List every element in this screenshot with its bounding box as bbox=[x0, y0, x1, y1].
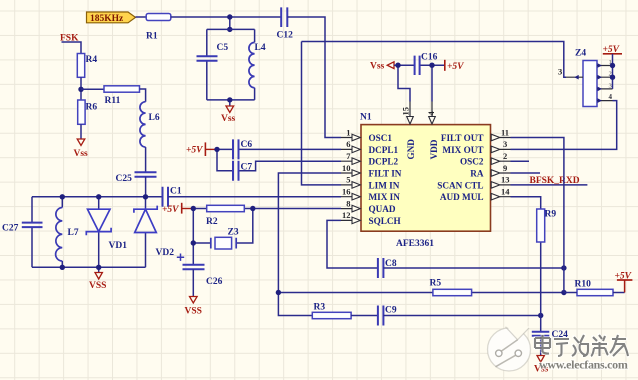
wire C6/C7 net bbox=[217, 149, 341, 170]
svg-text:R6: R6 bbox=[86, 103, 98, 113]
wire Vss to C16 and GND pin bbox=[394, 65, 444, 101]
power +5V at C1/R2 node bbox=[162, 203, 193, 215]
wire to R11 bbox=[81, 88, 104, 90]
ground Vss under C24 bbox=[534, 356, 549, 375]
pin names top GND VDD bbox=[406, 139, 439, 160]
svg-text:L4: L4 bbox=[255, 43, 266, 53]
watermark logo bbox=[488, 325, 531, 372]
svg-text:VD1: VD1 bbox=[109, 241, 128, 251]
capacitor C26 polarized bbox=[177, 254, 223, 288]
capacitor C7 bbox=[233, 161, 252, 181]
wire +5V node to R2 and QUAD bbox=[193, 209, 341, 265]
svg-text:14: 14 bbox=[501, 187, 510, 197]
svg-text:4: 4 bbox=[609, 93, 613, 101]
svg-text:R2: R2 bbox=[206, 217, 218, 227]
power +5V at C6 bbox=[186, 142, 217, 156]
svg-text:GND: GND bbox=[406, 139, 416, 160]
svg-text:FILT OUT: FILT OUT bbox=[441, 133, 484, 143]
svg-text:FILT IN: FILT IN bbox=[369, 169, 402, 179]
svg-text:1: 1 bbox=[346, 127, 350, 137]
Z4 pins right bbox=[597, 59, 613, 103]
wire R10 bbox=[564, 292, 625, 294]
wire FILT OUT to C8/R5 bbox=[511, 138, 564, 293]
svg-text:C27: C27 bbox=[2, 224, 19, 234]
resistor R10 bbox=[575, 280, 614, 296]
wire SQLCH to C8 bbox=[327, 220, 378, 268]
svg-text:C25: C25 bbox=[116, 174, 133, 184]
svg-text:www.elecfans.com: www.elecfans.com bbox=[539, 358, 628, 372]
svg-text:R11: R11 bbox=[105, 96, 121, 106]
resistor R2 bbox=[206, 205, 244, 227]
wire left loop bbox=[32, 197, 146, 273]
svg-text:SQLCH: SQLCH bbox=[369, 216, 401, 226]
svg-text:R9: R9 bbox=[545, 210, 557, 220]
wire SCAN CTL bbox=[511, 184, 588, 186]
capacitor C24 bbox=[532, 330, 568, 340]
svg-text:3: 3 bbox=[503, 139, 507, 149]
ground VSS under VD1 bbox=[89, 273, 106, 292]
svg-text:R3: R3 bbox=[314, 303, 326, 313]
wire tag to R1 bbox=[136, 16, 147, 18]
svg-text:VSS: VSS bbox=[89, 281, 106, 291]
capacitor C9 bbox=[378, 306, 397, 326]
svg-text:RA: RA bbox=[470, 169, 484, 179]
svg-text:6: 6 bbox=[346, 139, 350, 149]
wire FILT IN riser bbox=[278, 173, 341, 316]
svg-text:QUAD: QUAD bbox=[369, 204, 396, 214]
node tank top bbox=[227, 14, 232, 19]
wire L6 to C25 bbox=[145, 147, 147, 172]
svg-text:VSS: VSS bbox=[185, 307, 202, 317]
resistor R6 bbox=[78, 100, 98, 124]
svg-text:10: 10 bbox=[342, 163, 351, 173]
capacitor C6 bbox=[233, 139, 252, 159]
crystal Z3 bbox=[211, 228, 239, 250]
wire OSC2 stub bbox=[511, 160, 530, 162]
svg-text:LIM IN: LIM IN bbox=[369, 180, 400, 190]
diode VD1 zener bbox=[86, 209, 127, 251]
diode VD2 zener bbox=[134, 206, 174, 258]
pin names left bbox=[369, 133, 402, 226]
wire R1 to C12 bbox=[171, 16, 281, 18]
pin numbers left bbox=[342, 127, 351, 220]
svg-text:OSC2: OSC2 bbox=[460, 157, 484, 167]
wire C1 to pin16 MIX IN bbox=[168, 196, 341, 198]
wire AUD MUL to R9 bbox=[511, 197, 541, 356]
svg-text:185KHz: 185KHz bbox=[90, 14, 124, 24]
svg-text:DCPL1: DCPL1 bbox=[369, 145, 399, 155]
inductor L7 bbox=[56, 208, 79, 262]
svg-text:C9: C9 bbox=[385, 306, 397, 316]
svg-text:MIX OUT: MIX OUT bbox=[442, 145, 483, 155]
svg-text:AUD MUL: AUD MUL bbox=[440, 192, 484, 202]
svg-text:AFE3361: AFE3361 bbox=[396, 239, 434, 249]
capacitor C16 bbox=[415, 53, 438, 76]
svg-text:R4: R4 bbox=[86, 55, 98, 65]
svg-text:15: 15 bbox=[401, 107, 411, 116]
resistor R4 bbox=[77, 54, 97, 78]
resistor R5 bbox=[430, 279, 472, 296]
svg-text:C1: C1 bbox=[170, 187, 182, 197]
pins top 15 GND 4 VDD bbox=[410, 102, 432, 117]
svg-text:DCPL2: DCPL2 bbox=[369, 157, 399, 167]
wire R6 to ground bbox=[80, 124, 82, 139]
capacitor C1 bbox=[163, 187, 182, 207]
svg-text:VDD: VDD bbox=[429, 139, 439, 159]
ground Vss tank bbox=[221, 106, 236, 124]
wire R4 to R6 bbox=[80, 77, 82, 100]
capacitor C25 bbox=[116, 172, 157, 184]
pins right with arrows bbox=[500, 138, 511, 197]
svg-text:Vss: Vss bbox=[370, 62, 385, 72]
node dots left loop bbox=[60, 194, 65, 199]
inductor L4 bbox=[249, 42, 266, 87]
svg-text:9: 9 bbox=[503, 163, 507, 173]
ground Vss under R6 bbox=[74, 139, 89, 159]
resistor R9 bbox=[537, 209, 557, 242]
svg-text:L7: L7 bbox=[68, 228, 79, 238]
svg-text:3: 3 bbox=[609, 82, 612, 89]
capacitor C8 bbox=[378, 258, 397, 278]
wire tank loop bbox=[207, 29, 255, 106]
filter Z4 bbox=[575, 49, 597, 107]
op-amp U1 : IC N1 AFE3361 body bbox=[360, 113, 491, 250]
svg-text:SCAN CTL: SCAN CTL bbox=[437, 180, 483, 190]
wire MIX OUT to Z4 pin4 bbox=[511, 101, 617, 150]
svg-text:R5: R5 bbox=[430, 279, 442, 289]
svg-text:R10: R10 bbox=[575, 280, 592, 290]
wire RA stub bbox=[511, 172, 541, 174]
wire R5 rail bbox=[278, 292, 564, 294]
resistor R3 bbox=[312, 303, 351, 319]
capacitor C27 bbox=[2, 223, 43, 234]
wire C25 to main node bbox=[145, 177, 147, 197]
resistor R1 bbox=[146, 14, 171, 42]
wire long top rail to Z4 and LIM IN bbox=[302, 42, 567, 185]
wire junction drop to tank bbox=[229, 17, 231, 29]
svg-text:C5: C5 bbox=[217, 43, 229, 53]
svg-text:5: 5 bbox=[346, 175, 350, 185]
svg-text:MIX IN: MIX IN bbox=[369, 192, 401, 202]
inductor L6 bbox=[140, 102, 160, 147]
power +5V at Z4 bbox=[603, 45, 623, 89]
wire R3 to C9 bbox=[351, 315, 378, 317]
svg-text:+5V: +5V bbox=[186, 146, 203, 156]
svg-text:Z3: Z3 bbox=[228, 228, 239, 238]
wire R11 to L6 bbox=[140, 89, 146, 102]
wire main horizontal to C1 bbox=[32, 196, 163, 198]
power +5V at R10 bbox=[615, 272, 633, 293]
capacitor C5 bbox=[197, 43, 229, 61]
svg-text:L6: L6 bbox=[149, 113, 160, 123]
node R4/R6/R11 bbox=[78, 87, 83, 92]
ground VSS under C26 bbox=[185, 297, 202, 317]
Z4 pin 3 left bbox=[558, 67, 583, 80]
svg-text:N1: N1 bbox=[360, 113, 372, 123]
svg-text:Vss: Vss bbox=[221, 114, 236, 124]
net label 185KHz bbox=[87, 12, 136, 24]
svg-text:16: 16 bbox=[342, 187, 351, 197]
power Vss at C16 bbox=[370, 62, 394, 72]
svg-text:+5V: +5V bbox=[162, 205, 179, 215]
pins left with arrows bbox=[341, 138, 352, 221]
resistor R11 bbox=[104, 86, 140, 106]
svg-text:3: 3 bbox=[558, 67, 562, 77]
svg-text:C26: C26 bbox=[206, 277, 223, 287]
svg-text:12: 12 bbox=[342, 210, 351, 220]
wire C26 to ground bbox=[192, 269, 194, 296]
svg-text:C6: C6 bbox=[241, 140, 253, 150]
watermark chinese text bbox=[535, 335, 628, 356]
svg-text:OSC1: OSC1 bbox=[369, 133, 393, 143]
svg-text:C12: C12 bbox=[277, 31, 294, 41]
svg-text:8: 8 bbox=[346, 198, 350, 208]
power +5V at C16 bbox=[445, 60, 464, 72]
svg-text:BFSK_RXD: BFSK_RXD bbox=[530, 176, 580, 186]
wire C9 to R9 column bbox=[383, 315, 540, 317]
wire C12 to pin1 OSC1 bbox=[287, 17, 341, 138]
svg-text:VD2: VD2 bbox=[156, 248, 175, 258]
svg-text:+5V: +5V bbox=[447, 62, 464, 72]
capacitor C12 bbox=[277, 7, 294, 40]
wire C8 to FILT OUT column bbox=[383, 267, 564, 269]
svg-text:R1: R1 bbox=[146, 32, 158, 42]
svg-text:C16: C16 bbox=[421, 53, 438, 63]
svg-text:C7: C7 bbox=[241, 163, 253, 173]
svg-text:Z4: Z4 bbox=[575, 49, 586, 59]
svg-text:Vss: Vss bbox=[74, 149, 89, 159]
pin names right bbox=[437, 133, 484, 202]
net label FSK bbox=[60, 34, 81, 54]
svg-text:11: 11 bbox=[501, 127, 509, 137]
svg-text:13: 13 bbox=[501, 175, 510, 185]
pin numbers right bbox=[501, 127, 510, 196]
svg-text:2: 2 bbox=[503, 151, 507, 161]
